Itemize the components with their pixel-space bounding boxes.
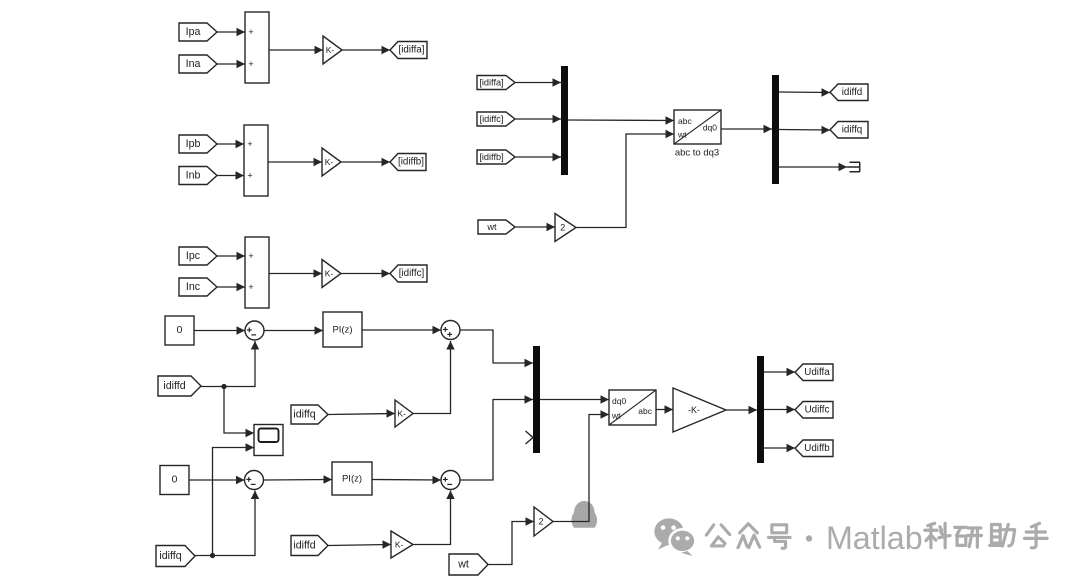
svg-text:abc: abc bbox=[678, 116, 692, 126]
wire Demux2 out2 to Udiffc bbox=[764, 405, 795, 413]
svg-text:Ipb: Ipb bbox=[186, 138, 201, 150]
wire idiffq from to Sum_q1 bbox=[195, 491, 259, 556]
svg-text:+: + bbox=[247, 139, 252, 149]
constant Constant zero q bbox=[160, 466, 189, 495]
Goto tag idiffd goto bbox=[830, 84, 868, 101]
svg-text:+: + bbox=[248, 59, 253, 69]
From tag Inb bbox=[179, 167, 217, 185]
wire Sum_q1 to PI_q bbox=[264, 475, 333, 483]
svg-text:Udiffa: Udiffa bbox=[804, 367, 830, 378]
svg-text:+: + bbox=[248, 251, 253, 261]
wire Inc to Add_c bbox=[217, 283, 245, 291]
wire Demux2 out1 to Udiffa bbox=[764, 368, 795, 376]
svg-text:-K-: -K- bbox=[688, 405, 700, 415]
svg-text:K-: K- bbox=[395, 540, 404, 550]
wire Demux1 out2 to idiffq goto bbox=[779, 126, 830, 134]
wire wt to Gain2_bottom bbox=[488, 517, 534, 564]
Goto tag idiffc goto bbox=[390, 265, 427, 282]
Goto tag Udiffc goto bbox=[795, 402, 833, 419]
Goto tag idiffa goto bbox=[390, 42, 427, 59]
transform block abc_to_dq0 bbox=[674, 110, 721, 144]
svg-text:idiffq: idiffq bbox=[842, 124, 863, 135]
svg-text:[idiffa]: [idiffa] bbox=[399, 45, 425, 56]
wire Gain_a to idiffa goto bbox=[342, 46, 390, 54]
svg-text:Udiffb: Udiffb bbox=[804, 443, 830, 454]
demux Demux1 bbox=[772, 75, 779, 184]
svg-text:wt: wt bbox=[677, 130, 687, 140]
wire wt to Gain2_top bbox=[515, 223, 555, 231]
demux Demux2 bbox=[757, 356, 764, 463]
wire Demux1 out1 to idiffd goto bbox=[779, 88, 830, 96]
wire Demux2 out3 to Udiffb bbox=[764, 444, 795, 452]
wire Gain_b to idiffb goto bbox=[341, 158, 390, 166]
wire idiffd from to Gain_wd bbox=[328, 540, 391, 548]
svg-text:K-: K- bbox=[326, 45, 335, 55]
svg-text:[idiffa]: [idiffa] bbox=[479, 78, 503, 88]
From tag Ipc bbox=[179, 247, 217, 265]
wire Demux1 out3 to terminator bbox=[779, 163, 847, 171]
From tag idiffq from bottom bbox=[156, 546, 195, 567]
watermark text bbox=[706, 520, 1047, 556]
svg-text:2: 2 bbox=[560, 223, 565, 233]
wire idiffa from to Mux1 bbox=[515, 78, 561, 86]
From tag idiffd from bbox=[158, 376, 201, 396]
mux Mux1 bbox=[561, 66, 568, 175]
wire Sum_q2 to Mux2 bbox=[460, 395, 533, 480]
gain Gain_K big bbox=[673, 388, 726, 432]
wire Add_a to Gain_a bbox=[269, 46, 323, 54]
wire Gain_wd to Sum_q2 bbox=[413, 491, 455, 545]
svg-text:idiffd: idiffd bbox=[163, 380, 185, 392]
svg-text:Ina: Ina bbox=[186, 58, 201, 70]
wire Gain_K to Demux2 bbox=[726, 406, 757, 414]
svg-text:Matlab: Matlab bbox=[826, 520, 923, 556]
wire Ipa to Add_a bbox=[217, 28, 245, 36]
From tag idiffb from bbox=[477, 150, 515, 164]
svg-text:idiffq: idiffq bbox=[293, 409, 315, 421]
svg-text:Inb: Inb bbox=[186, 170, 201, 182]
svg-text:[idiffb]: [idiffb] bbox=[398, 157, 424, 168]
gain Gain_c bbox=[322, 260, 341, 288]
svg-text:K-: K- bbox=[325, 269, 334, 279]
terminator bbox=[847, 162, 860, 171]
svg-text:dq0: dq0 bbox=[612, 396, 626, 406]
wire dq0_to_abc to Gain_K bbox=[656, 405, 673, 413]
svg-text:0: 0 bbox=[172, 475, 178, 486]
PI controller PI_q bbox=[332, 462, 372, 495]
svg-text:abc to dq3: abc to dq3 bbox=[675, 148, 719, 159]
svg-text:K-: K- bbox=[397, 409, 406, 419]
svg-text:[idiffc]: [idiffc] bbox=[480, 114, 504, 124]
wire Gain_wq to Sum_d2 bbox=[413, 341, 455, 414]
wire PI_d to Sum_d2 bbox=[362, 326, 441, 334]
wire idiffd from to Sum_d1 bbox=[201, 341, 259, 387]
wire Ipb to Add_b bbox=[216, 140, 244, 148]
svg-text:[idiffc]: [idiffc] bbox=[399, 268, 425, 279]
wire Ipc to Add_c bbox=[217, 252, 245, 260]
svg-text:[idiffb]: [idiffb] bbox=[479, 152, 503, 162]
wire Constant d to Sum_d1 bbox=[194, 326, 245, 334]
sum junction Sum_q1 bbox=[245, 471, 264, 490]
From tag wt from top bbox=[478, 220, 515, 234]
wire Sum_d2 to Mux2 bbox=[460, 330, 533, 367]
wire Constant q to Sum_q1 bbox=[189, 476, 245, 484]
wire Mux1 to abc_to_dq0 abc input bbox=[568, 116, 674, 124]
scope bbox=[254, 425, 283, 456]
svg-text:Udiffc: Udiffc bbox=[805, 404, 830, 415]
svg-text:0: 0 bbox=[177, 325, 183, 336]
svg-text:abc: abc bbox=[638, 406, 652, 416]
svg-text:+: + bbox=[248, 282, 253, 292]
watermark grey blob bbox=[571, 501, 597, 528]
Goto tag idiffb goto bbox=[390, 154, 426, 171]
gain Gain2_top bbox=[555, 214, 576, 242]
junction idiffd node bbox=[221, 384, 226, 389]
From tag idiffd from bottom bbox=[291, 536, 328, 556]
wire Inb to Add_b bbox=[216, 171, 244, 179]
wire Gain2_top to abc_to_dq0 wt input bbox=[576, 130, 674, 228]
sum junction Sum_d1 bbox=[245, 321, 264, 340]
unconnected Mux2 input 3 bbox=[526, 431, 534, 444]
svg-text:idiffd: idiffd bbox=[842, 87, 863, 98]
wire Sum_d1 to PI_d bbox=[264, 326, 323, 334]
wire idiffd node to Scope bbox=[224, 387, 254, 438]
svg-text:+: + bbox=[248, 27, 253, 37]
wire idiffq from to Gain_wq bbox=[328, 409, 395, 417]
constant Constant zero d bbox=[165, 316, 194, 345]
Goto tag idiffq goto bbox=[830, 122, 868, 139]
From tag Ipb bbox=[179, 135, 217, 153]
svg-text:+: + bbox=[247, 171, 252, 181]
sum block Add_a bbox=[245, 12, 269, 83]
wire Add_b to Gain_b bbox=[268, 158, 322, 166]
wire idiffq node to Scope bbox=[213, 443, 255, 555]
gain Gain_wq bbox=[395, 400, 413, 427]
From tag idiffa from bbox=[477, 76, 515, 90]
gain Gain_a bbox=[323, 36, 342, 64]
sum junction Sum_d2 bbox=[441, 321, 460, 340]
svg-text:2: 2 bbox=[539, 517, 544, 527]
sum block Add_b bbox=[244, 125, 268, 196]
From tag Ipa bbox=[179, 23, 217, 41]
watermark wechat icon bbox=[654, 518, 695, 556]
transform block dq0_to_abc bbox=[609, 390, 656, 425]
wire idiffc from to Mux1 bbox=[515, 115, 561, 123]
svg-text:idiffq: idiffq bbox=[159, 550, 181, 562]
From tag idiffq from mid bbox=[291, 405, 328, 424]
svg-text:idiffd: idiffd bbox=[293, 540, 315, 552]
From tag idiffc from bbox=[477, 112, 515, 126]
gain Gain2_bottom bbox=[534, 507, 553, 536]
svg-text:Inc: Inc bbox=[186, 281, 201, 293]
svg-text:wt: wt bbox=[457, 559, 469, 571]
svg-text:dq0: dq0 bbox=[703, 123, 717, 133]
svg-text:wt: wt bbox=[611, 411, 621, 421]
svg-text:Ipc: Ipc bbox=[186, 250, 201, 262]
gain Gain_b bbox=[322, 148, 341, 176]
Goto tag Udiffb goto bbox=[795, 440, 833, 457]
svg-text:K-: K- bbox=[325, 157, 334, 167]
svg-text:PI(z): PI(z) bbox=[332, 325, 352, 336]
sum junction Sum_q2 bbox=[441, 471, 460, 490]
wire Mux2 to dq0_to_abc bbox=[540, 395, 609, 403]
wire Gain2_bottom to dq0_to_abc wt input bbox=[553, 410, 609, 521]
wire PI_q to Sum_q2 bbox=[372, 476, 441, 484]
From tag Inc bbox=[179, 278, 217, 296]
PI controller PI_d bbox=[323, 312, 362, 347]
wire Add_c to Gain_c bbox=[269, 269, 322, 277]
gain Gain_wd bbox=[391, 531, 413, 558]
From tag Ina bbox=[179, 55, 217, 73]
sum block Add_c bbox=[245, 237, 269, 308]
svg-text:wt: wt bbox=[486, 222, 497, 232]
junction idiffq node bbox=[210, 553, 215, 558]
wire abc_to_dq0 to Demux1 bbox=[721, 125, 772, 133]
mux Mux2 bbox=[533, 346, 540, 453]
wire idiffb from to Mux1 bbox=[515, 153, 561, 161]
svg-text:PI(z): PI(z) bbox=[342, 474, 362, 485]
wire Gain_c to idiffc goto bbox=[340, 269, 390, 277]
From tag wt from bottom bbox=[449, 554, 488, 575]
Goto tag Udiffa goto bbox=[795, 364, 833, 381]
svg-text:Ipa: Ipa bbox=[186, 26, 201, 38]
wire Ina to Add_a bbox=[217, 60, 245, 68]
